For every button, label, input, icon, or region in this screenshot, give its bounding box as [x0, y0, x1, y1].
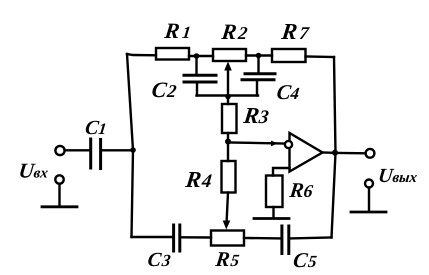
label C5: [292, 248, 319, 272]
wire R3 bottom to node: [227, 133, 229, 142]
svg-text:R6: R6: [287, 178, 315, 202]
svg-text:R7: R7: [279, 18, 313, 44]
svg-text:Uвх: Uвх: [17, 159, 50, 183]
wire R1 to R2: [189, 55, 213, 57]
label R7: [279, 18, 313, 44]
svg-text:C2: C2: [150, 77, 179, 102]
label C3: [146, 249, 173, 271]
wire right bus: [332, 57, 336, 238]
label R1: [162, 18, 195, 43]
resistor R4: [222, 161, 236, 193]
node A junction R1/R2/C2: [194, 53, 200, 59]
svg-text:R4: R4: [183, 166, 214, 192]
resistor R1: [156, 48, 189, 60]
svg-text:R5: R5: [213, 247, 241, 271]
svg-text:R1: R1: [162, 18, 195, 43]
svg-text:C5: C5: [292, 248, 319, 272]
resistor R3: [222, 104, 237, 133]
capacitor C3: [174, 225, 180, 251]
svg-text:R3: R3: [241, 102, 270, 128]
op-amp U1: [285, 133, 323, 172]
wire C3 to R5: [181, 236, 211, 239]
capacitor C5: [282, 226, 289, 254]
label R5: [213, 247, 241, 271]
label R3: [241, 102, 270, 128]
wire R2 wiper arrow down to rail: [224, 62, 232, 105]
svg-text:R2: R2: [219, 19, 251, 44]
terminal output lower: [365, 180, 373, 188]
terminal input upper: [55, 146, 64, 155]
terminal input lower: [55, 175, 63, 183]
wire input to C1: [65, 149, 89, 151]
wire non-inverting input to R6: [273, 168, 290, 176]
resistor R7: [272, 49, 306, 62]
wire bottom rail left: [132, 236, 173, 238]
capacitor C4: [242, 58, 275, 96]
wire op-amp output: [323, 151, 333, 154]
node R3/R4/op-amp junction: [225, 139, 231, 145]
wire C2/C4 bottom rail: [197, 94, 259, 96]
svg-text:C4: C4: [275, 80, 300, 104]
label Uvyx output: [377, 165, 419, 187]
node B junction R2/R7/C4: [256, 53, 262, 59]
wire R5 to C5: [244, 237, 280, 240]
node C1/left bus junction: [130, 147, 136, 153]
label Uvx input: [17, 159, 50, 183]
resistor R5 (potentiometer): [211, 231, 244, 246]
resistor R6: [266, 176, 283, 208]
label R4: [183, 166, 214, 192]
label C4: [275, 80, 300, 104]
svg-text:Uвых: Uвых: [377, 165, 419, 187]
wire R2 to R7: [246, 54, 272, 56]
label R6: [287, 178, 315, 202]
ground output: [351, 188, 386, 213]
wire C5 to right bus: [290, 236, 331, 239]
svg-text:C3: C3: [146, 249, 173, 271]
wire inverting input with arrow: [228, 141, 285, 147]
svg-text:C1: C1: [84, 117, 108, 139]
wire output to terminal: [338, 152, 366, 155]
node output junction: [332, 150, 338, 156]
resistor R2 (potentiometer): [213, 49, 246, 61]
wire R4 top: [227, 143, 229, 162]
capacitor C2: [184, 58, 216, 96]
label R2: [219, 19, 251, 44]
node rail/R3 junction: [225, 94, 231, 100]
ground input: [42, 184, 77, 207]
wire R4 to R5 wiper arrow: [223, 193, 231, 230]
ground R6: [254, 207, 289, 219]
wire left bus: [127, 54, 133, 237]
capacitor C1: [91, 139, 133, 169]
terminal output upper: [366, 149, 375, 158]
label C2: [150, 77, 179, 102]
label C1: [84, 117, 108, 139]
wire R7 to right bus: [306, 55, 335, 58]
wire top rail left: [127, 54, 156, 55]
